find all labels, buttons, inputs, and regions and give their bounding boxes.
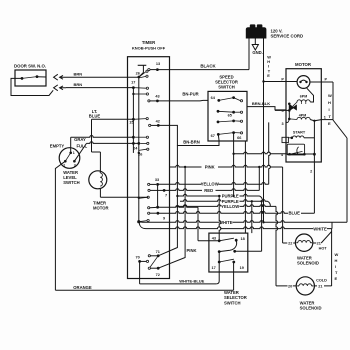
wire PURPLE bus 1 [177,194,259,196]
wire to motor P [264,81,298,83]
svg-text:MOTOR: MOTOR [93,206,109,211]
wire YELLOW bus 2 [177,205,276,207]
wire white diagonal [333,120,347,138]
svg-text:TIMER: TIMER [142,40,156,45]
speed selector row3 [217,121,220,124]
svg-text:18: 18 [240,237,244,241]
water selector mid contacts [218,250,221,253]
svg-text:P: P [325,78,328,82]
svg-text:BLUE: BLUE [89,114,101,119]
svg-text:21: 21 [317,242,321,246]
svg-text:SWITCH: SWITCH [63,180,80,185]
wire BRN lower [66,87,133,89]
wire aux to start switch [313,121,315,155]
svg-text:SWITCH: SWITCH [224,300,241,305]
svg-text:E: E [267,73,270,78]
wire RED bus [164,189,259,191]
wire BRN upper [66,76,139,78]
start resistor [282,137,288,142]
wire purple1 to selector 43 [219,196,221,241]
svg-text:BRN: BRN [74,82,83,87]
svg-text:4PM: 4PM [299,113,306,117]
wire GRAY pin1 to timer [70,137,72,153]
wire LT BLUE [92,118,134,120]
svg-text:KNOB-PUSH OFF: KNOB-PUSH OFF [132,45,166,50]
svg-text:DOOR SW. N.O.: DOOR SW. N.O. [14,64,46,69]
svg-text:YELLOW: YELLOW [221,204,239,209]
svg-text:19: 19 [240,266,244,270]
svg-text:I: I [329,107,330,112]
wire BLUE bus [158,211,315,213]
svg-text:17: 17 [211,266,215,270]
svg-text:67: 67 [211,134,215,138]
svg-text:HOT: HOT [319,247,328,251]
start switch box [287,144,304,155]
svg-text:E: E [328,121,331,126]
svg-text:22: 22 [288,242,292,246]
wire WHITE bus 2 [139,223,146,229]
wire 33 down [157,184,159,207]
svg-text:RED: RED [204,188,213,193]
svg-text:26: 26 [136,71,140,75]
connector chevron top [54,74,58,80]
wire selector17 down [218,252,220,281]
svg-text:EMPTY: EMPTY [50,144,65,149]
svg-text:I: I [335,264,336,269]
wire BLACK [157,69,249,71]
hot water solenoid L1 [295,234,312,251]
svg-text:7: 7 [165,194,167,198]
timer contact motor [147,196,149,198]
timer box [128,57,170,279]
wire PINK bus [170,165,283,167]
wire hot to white [321,232,331,244]
timer motor M1 [89,171,107,189]
wire red up to pink [258,167,260,190]
door switch contacts [21,77,24,80]
svg-text:2: 2 [63,164,65,168]
svg-text:E: E [335,276,338,281]
svg-text:2: 2 [310,170,312,174]
service cord plug [246,24,267,38]
svg-text:1: 1 [324,115,326,119]
svg-text:SOLENOID: SOLENOID [297,261,319,266]
wire speed66 down [233,133,235,196]
svg-text:BLUE: BLUE [288,211,300,216]
cold water solenoid L2 [296,277,314,295]
wire white neutral down [263,82,265,223]
speed selector pin 65 [217,110,220,113]
wire hot solenoid right [313,242,316,244]
svg-text:20: 20 [288,285,292,289]
motor centrifugal switch [288,104,290,119]
svg-text:W: W [335,252,339,257]
svg-text:BN-PUR: BN-PUR [182,92,198,97]
wire YELLOW bus [158,182,269,184]
wire motor4 feed [234,152,286,154]
wire WHITE from plug [263,39,265,82]
start coil to pin2 node [304,137,315,139]
wire selector mid to white [261,201,263,251]
timer contacts top [146,70,148,72]
wire FULL pin3 to timer [74,143,86,161]
start switch blade [297,147,299,154]
svg-text:1: 1 [73,151,75,155]
timer knob contact T [138,64,147,66]
motor box [286,69,321,162]
water selector 18 curve [219,240,236,251]
svg-text:YELLOW: YELLOW [201,182,219,187]
svg-text:70: 70 [135,256,139,260]
svg-text:42: 42 [156,120,160,124]
svg-text:9: 9 [163,216,165,220]
wire pink to hot solenoid [282,167,284,243]
svg-text:15: 15 [129,120,133,124]
svg-text:ORANGE: ORANGE [73,285,92,290]
svg-text:SERVICE CORD: SERVICE CORD [271,33,304,38]
ground symbol [254,39,256,45]
wire timer71 riser [158,146,177,256]
connector arrow top [60,75,66,79]
timer contact neutral [147,219,149,221]
timer contacts 17 group [146,87,148,89]
wire purple2 riser [251,201,253,233]
timer motor coil [100,173,102,186]
wire cold solenoid right [314,285,331,287]
wire white to cold 21 [331,229,333,286]
wire speed selector riser A [244,141,246,233]
wire timer motor to timer [99,189,101,198]
wire selector mid out [235,250,262,252]
wire pink2 to selector [197,207,199,241]
svg-text:SWITCH: SWITCH [218,84,235,89]
svg-text:17: 17 [131,80,135,84]
wire pink2 horizontal [158,206,198,208]
timer inner bus A [138,77,140,222]
motor protector [297,76,310,89]
svg-text:3: 3 [74,164,76,168]
svg-text:3: 3 [282,122,284,126]
svg-text:66: 66 [237,136,241,140]
timer inner bus B [132,88,134,153]
wire WHITE bus 1 [139,221,145,224]
svg-text:WHITE-BLUE: WHITE-BLUE [179,278,204,283]
svg-text:6PM: 6PM [300,94,307,98]
connector arrow bottom [60,86,66,90]
door switch box [15,70,46,86]
svg-text:BRN: BRN [74,71,83,76]
wire WHITE-BLUE [216,281,219,284]
svg-text:GRAY: GRAY [74,137,86,142]
svg-text:65: 65 [228,113,232,117]
wire ORANGE [55,289,233,291]
svg-text:BLACK: BLACK [200,63,216,68]
svg-text:72: 72 [156,273,160,277]
svg-text:SOLENOID: SOLENOID [300,305,322,310]
svg-text:START: START [293,131,306,135]
svg-text:43: 43 [155,94,159,98]
svg-text:COLD: COLD [316,278,327,282]
svg-text:GND.: GND. [252,50,262,55]
svg-text:H: H [328,100,331,105]
wire timer72 riser [158,167,185,268]
wire door switch loop [11,78,53,95]
svg-text:W: W [328,93,332,98]
water selector S3 box [209,233,248,272]
svg-text:21: 21 [318,285,322,289]
svg-text:PURPLE: PURPLE [222,194,239,199]
timer pin 9 [148,207,150,209]
svg-text:13: 13 [156,62,160,66]
connector chevron bottom [54,85,58,91]
svg-text:PINK: PINK [186,248,196,253]
svg-text:BN-BRN: BN-BRN [183,139,200,144]
svg-text:71: 71 [156,250,160,254]
water level switch P1 [59,148,80,169]
svg-text:H: H [335,258,338,263]
svg-text:43: 43 [212,236,216,240]
svg-text:MOTOR: MOTOR [295,62,312,67]
svg-text:PINK: PINK [205,165,215,170]
svg-text:33: 33 [155,178,159,182]
wire pin2 down left [55,161,65,290]
timer contacts mid [132,136,135,139]
svg-text:WHITE: WHITE [313,226,327,231]
timer pin 7 [148,189,150,191]
motor P right [310,81,333,83]
speed selector box [208,91,247,141]
wire to cold solenoid [276,206,278,286]
wire PURPLE bus 2 [180,200,268,202]
wire hot solenoid left [283,242,296,244]
wire motor right jumper [332,82,334,120]
svg-text:BRN-BLK: BRN-BLK [252,101,270,106]
wire white bus hook [331,222,333,228]
wire yellow to motor3 [269,122,271,184]
timer blade 71-72 [150,256,158,268]
wire cold solenoid left [276,285,296,287]
